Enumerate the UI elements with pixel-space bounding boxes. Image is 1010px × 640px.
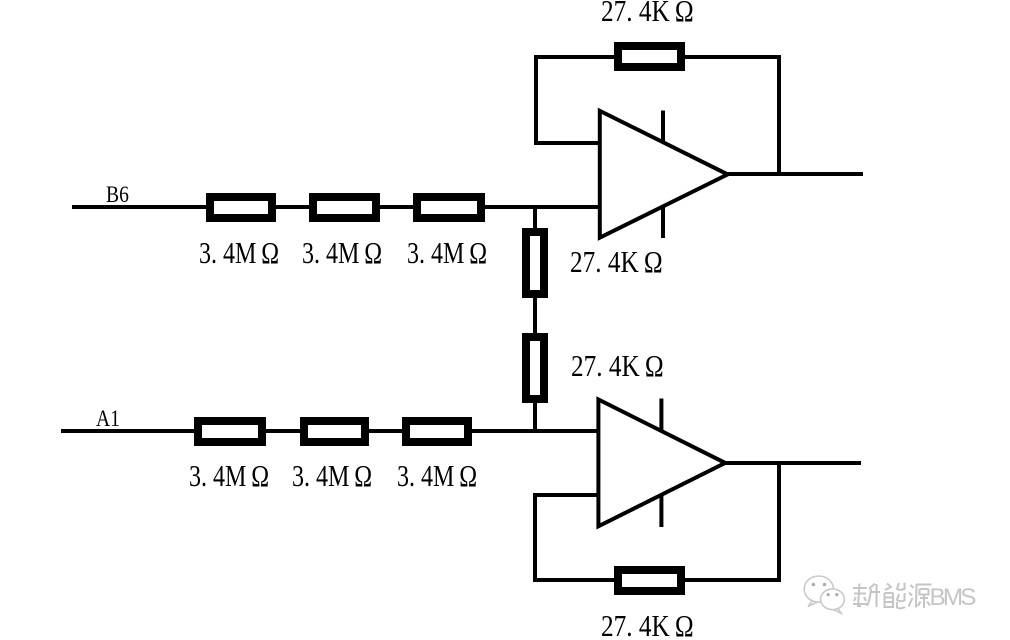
resistor 27.4K divider upper	[522, 228, 548, 298]
resistor 3.4M #3 (B6 row)	[413, 193, 485, 222]
value label 27.4K top	[601, 0, 694, 26]
resistor 27.4K top feedback	[614, 42, 685, 71]
resistor 3.4M #5 (A1 row)	[300, 417, 369, 446]
wire bottom output	[721, 461, 861, 465]
wechat bubble icon	[804, 576, 844, 613]
value label 27.4K divider upper	[570, 246, 663, 277]
wire A1 input line	[61, 429, 600, 433]
resistor 3.4M #4 (A1 row)	[194, 417, 266, 446]
value label 3.4M #1 (B6 row)	[199, 237, 279, 268]
watermark logo (wechat icon + 新能源BMS)	[795, 568, 1010, 628]
value label 3.4M #5 (A1 row)	[292, 460, 372, 491]
hanzi 新	[853, 584, 880, 608]
value label 3.4M #3 (B6 row)	[407, 237, 487, 268]
resistor 27.4K divider lower	[522, 333, 548, 403]
wire top feedback horizontal	[534, 55, 781, 59]
value label 3.4M #4 (A1 row)	[189, 460, 269, 491]
hanzi 能	[885, 583, 906, 609]
wire bottom feedback right vertical	[777, 462, 781, 582]
wire top feedback left vertical	[534, 55, 538, 145]
wire B6 input line	[72, 205, 601, 209]
wire bottom feedback horizontal	[533, 578, 781, 582]
resistor 27.4K bottom feedback	[614, 566, 685, 595]
value label 27.4K divider lower	[571, 350, 664, 381]
svg-text:BMS: BMS	[930, 584, 977, 611]
wire top inverting input	[534, 141, 601, 145]
resistor 3.4M #2 (B6 row)	[309, 193, 380, 222]
value label 27.4K bottom	[601, 610, 694, 640]
node A1 label	[96, 407, 120, 430]
hanzi 源	[909, 585, 932, 609]
wire bottom inverting input	[533, 493, 600, 497]
wire bottom feedback left vertical	[533, 493, 537, 582]
value label 3.4M #6 (A1 row)	[397, 460, 477, 491]
resistor 3.4M #1 (B6 row)	[206, 193, 276, 222]
value label 3.4M #2 (B6 row)	[302, 237, 382, 268]
wire vertical divider chain (node X to node Y)	[533, 206, 537, 432]
resistor 3.4M #6 (A1 row)	[402, 417, 472, 446]
wire top output	[724, 172, 863, 176]
node B6 label	[106, 183, 129, 206]
wire top feedback right vertical	[777, 55, 781, 176]
